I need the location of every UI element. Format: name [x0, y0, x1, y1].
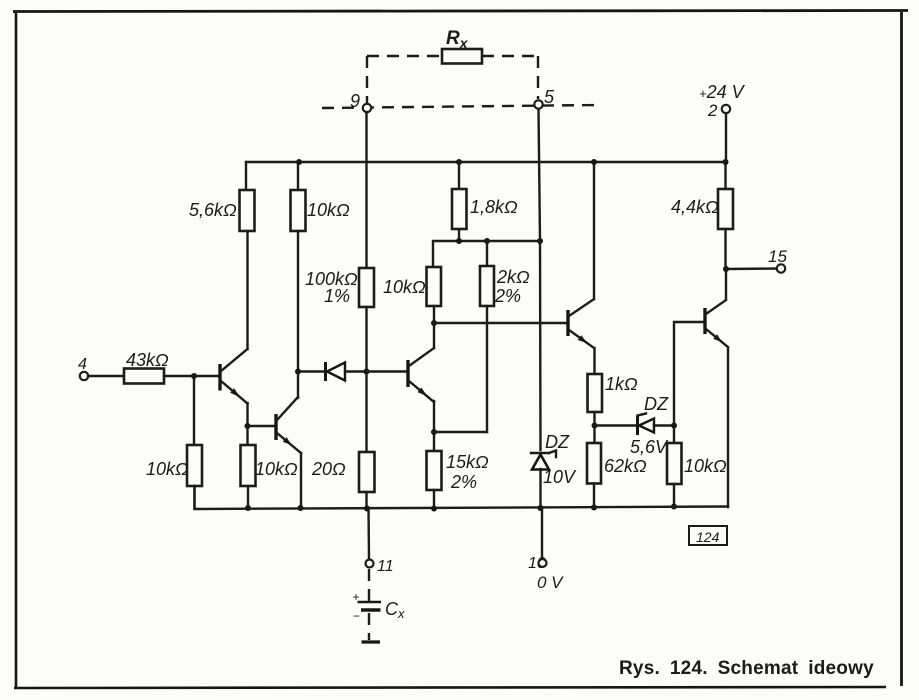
wire dashed Cx to end — [368, 613, 370, 640]
svg-text:124: 124 — [696, 529, 720, 545]
svg-text:DZ: DZ — [644, 394, 669, 414]
svg-text:+: + — [353, 590, 360, 604]
resistor R14 10k right — [667, 443, 682, 484]
resistor R11 15k 2% — [427, 451, 442, 490]
wire R3 bottom to diode node — [365, 307, 367, 452]
node 9 terminal — [363, 104, 371, 112]
junction zener/10k/Q5 base — [671, 423, 677, 429]
wire Q5 collector up — [725, 269, 727, 299]
svg-text:10V: 10V — [543, 467, 577, 487]
wire Q4 collector to bus — [593, 162, 595, 299]
wire ground to terminal 11 — [367, 508, 370, 560]
resistor R5 10k — [427, 267, 442, 306]
wire dashed terminal11 to Cx — [368, 569, 370, 601]
wire D1 anode to Q3 base — [345, 370, 406, 372]
wire dashed horizontal net — [322, 105, 597, 108]
svg-text:10kΩ: 10kΩ — [307, 200, 350, 220]
wire to Q2 base — [248, 425, 275, 427]
resistor R7 43k — [124, 369, 164, 384]
svg-text:Rx: Rx — [446, 28, 469, 51]
wire Q1 emitter down — [246, 403, 248, 426]
wire Q5 emitter down to ground bus — [727, 348, 729, 507]
svg-text:+24 V: +24 V — [699, 82, 746, 102]
svg-text:4: 4 — [78, 356, 87, 373]
wire dashed node9 to Rx — [366, 56, 368, 103]
junction bus/Q4 collector — [591, 159, 597, 165]
svg-text:2%: 2% — [450, 472, 477, 492]
svg-text:20Ω: 20Ω — [311, 459, 346, 479]
svg-text:43kΩ: 43kΩ — [126, 350, 169, 370]
diode D1 — [326, 362, 346, 381]
svg-text:15kΩ: 15kΩ — [446, 452, 489, 472]
wire bus to R15 — [724, 162, 726, 189]
wire R4 bottom to node — [458, 229, 460, 241]
transistor Q1 — [220, 349, 248, 404]
resistor R1 5.6k — [240, 190, 255, 231]
resistor R15 4.4k — [718, 189, 733, 229]
junction bus/1.8k — [456, 159, 462, 165]
zener DZ2 5.6V — [638, 414, 655, 436]
svg-text:Cx: Cx — [385, 599, 405, 621]
svg-text:62kΩ: 62kΩ — [604, 456, 647, 476]
terminal 10 — [539, 559, 547, 567]
wire node9 down through bus — [365, 112, 367, 268]
resistor R3 100k 1% — [359, 268, 374, 307]
wire node to zener DZ2 — [595, 424, 638, 426]
resistor R9 10k — [241, 445, 256, 486]
wire R9 bottom to ground bus — [247, 486, 249, 508]
wire R15 bottom to node — [724, 229, 726, 269]
svg-text:0 V: 0 V — [537, 573, 564, 592]
junction R14/ground — [671, 504, 677, 510]
wire R13 bottom to ground bus — [593, 484, 595, 508]
junction bus/10k — [296, 159, 302, 165]
svg-text:DZ: DZ — [545, 432, 570, 452]
resistor R12 1k — [588, 374, 603, 412]
wire Q3 emitter down — [433, 401, 435, 451]
svg-text:10kΩ: 10kΩ — [255, 459, 298, 479]
junction Q1 emitter / Q2 base — [245, 423, 251, 429]
resistor R6 2k 2% — [480, 266, 494, 306]
transistor Q3 — [408, 348, 434, 402]
wire dashed node5 to Rx — [537, 56, 539, 99]
wire R2 bottom down to diode node — [297, 231, 299, 372]
transistor Q4 — [568, 299, 594, 348]
junction ground/15k — [431, 506, 437, 512]
resistor R4 1.8k — [452, 189, 467, 229]
wire dashed Rx left — [367, 55, 442, 57]
wire down to R9 — [246, 426, 248, 445]
wire R10 bottom to ground bus — [365, 492, 367, 508]
wire bus to R4 top — [458, 162, 460, 189]
wire DZ2 anode to node — [654, 424, 674, 426]
wire terminal4 to R7 — [88, 375, 124, 377]
junction ground/20ohm — [364, 506, 370, 512]
capacitor Cx — [353, 590, 382, 623]
svg-text:5: 5 — [544, 87, 555, 107]
svg-text:10kΩ: 10kΩ — [383, 277, 426, 297]
wire node up to Q5 base — [674, 322, 703, 426]
svg-text:1,8kΩ: 1,8kΩ — [470, 197, 518, 217]
svg-text:2%: 2% — [494, 286, 521, 306]
wire terminal2 to bus — [725, 113, 727, 162]
wire node5 line down — [539, 109, 541, 450]
wire top supply bus — [246, 161, 725, 163]
junction diode/R2 — [295, 369, 301, 375]
wire R8 bottom to ground bus — [193, 486, 195, 508]
wire R1 bottom to Q1 collector — [246, 231, 248, 349]
svg-text:5,6kΩ: 5,6kΩ — [189, 200, 237, 220]
wire dashed Rx right — [482, 55, 538, 57]
resistor R10 20ohm — [359, 452, 375, 492]
wire 2k top stub — [486, 241, 488, 266]
open end bar — [362, 640, 381, 643]
junction base node Q1 — [191, 373, 197, 379]
svg-text:2kΩ: 2kΩ — [496, 267, 530, 287]
junction output node — [723, 266, 729, 272]
wire diode node to Q2 collector — [297, 372, 299, 399]
wire ground to terminal 10 — [541, 508, 543, 559]
junction R9/ground — [245, 505, 251, 511]
svg-text:11: 11 — [377, 558, 394, 575]
wire node row y241 — [433, 241, 540, 267]
junction bus/+24V — [723, 159, 729, 165]
svg-text:15: 15 — [768, 247, 787, 266]
wire ground bus — [195, 486, 729, 509]
junction emitter/2k row — [431, 429, 437, 435]
wire node down to R14 — [673, 426, 675, 444]
terminal 15 — [777, 264, 785, 272]
junction 1.8k/row — [456, 238, 462, 244]
transistor Q5 — [705, 300, 728, 347]
resistor R8 10k — [187, 445, 202, 486]
svg-text:1kΩ: 1kΩ — [605, 374, 638, 394]
junction Q2 emitter/ground — [298, 505, 304, 511]
figure number box 124 — [689, 526, 727, 545]
junction R13/ground — [591, 505, 597, 511]
wire R14 bottom to ground bus — [673, 484, 675, 507]
wire Q4 emitter to R12 — [593, 348, 595, 374]
wire bus to R1 top — [245, 162, 247, 190]
wire R7 to Q1 base — [164, 375, 218, 377]
svg-text:Rys. 124. Schemat ideowy: Rys. 124. Schemat ideowy — [619, 658, 874, 679]
wire emitter row to 2k — [434, 431, 487, 433]
svg-text:10kΩ: 10kΩ — [146, 459, 189, 479]
junction ground/DZ1 — [538, 505, 544, 511]
resistor R13 62k — [587, 443, 601, 484]
svg-text:1%: 1% — [324, 286, 350, 306]
svg-text:10kΩ: 10kΩ — [684, 456, 727, 476]
terminal 11 — [366, 560, 374, 568]
wire collector row y323 — [434, 322, 566, 324]
svg-text:4,4kΩ: 4,4kΩ — [671, 197, 719, 217]
transistor Q2 — [276, 397, 301, 453]
junction diode/anode net — [364, 369, 370, 375]
wire DZ1 to ground bus — [539, 469, 541, 508]
terminal 4 — [80, 372, 88, 380]
resistor Rx (external, dashed) — [442, 49, 482, 64]
wire node to terminal 15 — [726, 267, 777, 270]
junction 1k/62k/zener — [592, 423, 598, 429]
wire R12 bottom to node — [593, 412, 595, 443]
svg-text:−: − — [353, 609, 360, 623]
resistor R2 10k — [291, 190, 306, 231]
svg-text:9: 9 — [350, 91, 360, 111]
junction 2k/row — [484, 238, 490, 244]
node 5 terminal — [534, 100, 542, 108]
wire R11 bottom to ground bus — [433, 490, 435, 508]
zener DZ1 10V — [531, 451, 556, 470]
wire R2 node to D1 cathode — [298, 370, 325, 372]
junction R5/base row — [431, 320, 437, 326]
wire base node down to R8 — [193, 376, 195, 445]
junction row/node5 line — [537, 238, 543, 244]
wire Q2 emitter to ground bus — [300, 453, 302, 508]
svg-text:5,6V: 5,6V — [630, 437, 669, 457]
wire Q3 collector up — [433, 323, 435, 348]
svg-text:2: 2 — [707, 101, 718, 120]
wire bus to R2 top — [297, 162, 299, 190]
wire 2k bottom down to emitter row — [486, 306, 488, 432]
terminal 2 — [722, 105, 730, 113]
wire R5 bottom to base row — [433, 306, 435, 323]
